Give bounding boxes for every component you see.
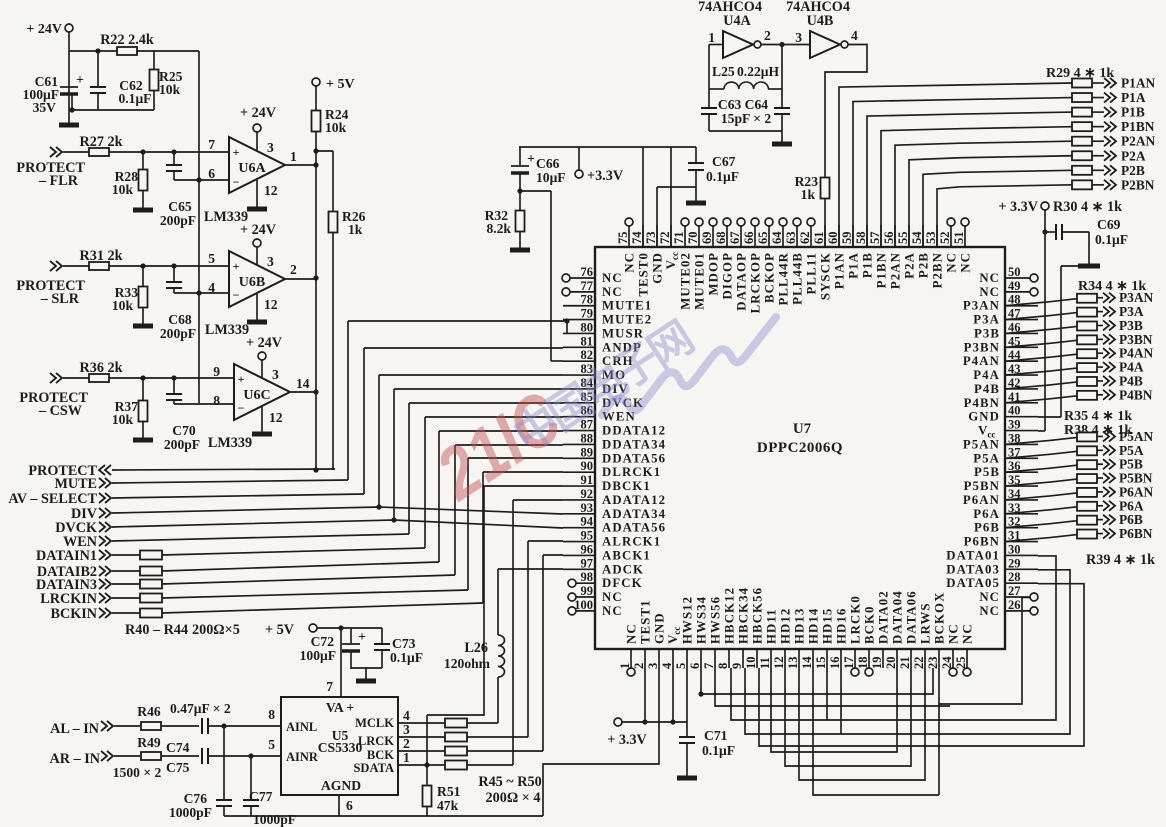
IC U7 DPPC2006Q outline — [595, 247, 1005, 649]
wire AV-SELECT row to pin 81 — [112, 494, 364, 498]
svg-text:HBCK12: HBCK12 — [723, 587, 737, 644]
svg-text:HD15: HD15 — [821, 608, 835, 644]
wire pin 37 to P5A — [1005, 451, 1077, 458]
pin 78 MUTE1 stub — [563, 305, 595, 307]
resistor R40 — [112, 554, 140, 556]
svg-text:HD12: HD12 — [779, 608, 793, 644]
svg-text:72: 72 — [658, 232, 672, 245]
wire pin 57 to P1BN — [881, 127, 1072, 247]
node P5B output — [1103, 459, 1109, 469]
svg-text:67: 67 — [728, 232, 742, 245]
svg-text:58: 58 — [854, 232, 868, 245]
pin 33 P6A stub — [1005, 513, 1038, 515]
svg-text:14: 14 — [800, 656, 814, 669]
wire R43 row staircase — [467, 458, 469, 590]
pin 100 NC (NC) — [568, 607, 576, 615]
pin 45 P3BN stub — [1005, 346, 1038, 348]
svg-text:C73: C73 — [392, 636, 416, 651]
svg-text:P2B: P2B — [917, 252, 931, 278]
svg-text:1: 1 — [403, 750, 410, 765]
svg-text:5: 5 — [208, 251, 215, 266]
svg-text:P4A: P4A — [1119, 360, 1144, 375]
IC U5 CS5330 — [281, 697, 398, 795]
svg-text:HWS56: HWS56 — [709, 596, 723, 644]
svg-text:−: − — [238, 401, 245, 415]
node P1BN output — [1104, 122, 1110, 132]
capacitor C69 — [1045, 231, 1056, 233]
svg-text:BCK: BCK — [367, 748, 394, 762]
svg-text:AR – IN: AR – IN — [50, 751, 101, 767]
svg-text:30: 30 — [1008, 542, 1021, 556]
svg-text:2: 2 — [764, 28, 771, 43]
svg-text:+: + — [233, 145, 240, 159]
pin 13 HD13 bottom stub — [798, 649, 800, 668]
svg-text:ADATA34: ADATA34 — [602, 507, 666, 521]
svg-text:P3B: P3B — [974, 326, 1000, 340]
wire DATA03 pin 29 loop to pin 9 — [745, 570, 1070, 734]
svg-text:R31 2k: R31 2k — [80, 248, 123, 264]
svg-text:0.22μH: 0.22μH — [737, 64, 779, 79]
svg-text:MUTE1: MUTE1 — [602, 299, 652, 313]
resistor R42 — [112, 583, 140, 585]
resistor R51 — [424, 762, 429, 767]
svg-text:4: 4 — [208, 280, 215, 295]
svg-text:DATA05: DATA05 — [946, 576, 1000, 590]
svg-text:+ 3.3V: + 3.3V — [607, 732, 647, 748]
pin 70 MUTE01 top stub — [698, 226, 700, 247]
svg-text:73: 73 — [644, 232, 658, 245]
svg-text:DDATA34: DDATA34 — [602, 437, 666, 451]
svg-text:19: 19 — [870, 657, 884, 670]
svg-text:97: 97 — [581, 556, 594, 570]
pin 27 NC (NC) — [1005, 596, 1030, 598]
pin 52 NC top stub — [950, 226, 952, 247]
capacitor C65 — [173, 152, 175, 165]
wire Vcc pin 4 — [672, 668, 674, 722]
wire U4A input left rail — [709, 44, 723, 46]
svg-text:DLRCK1: DLRCK1 — [602, 465, 661, 479]
pin 44 P4AN stub — [1005, 360, 1038, 362]
pin 5 HWS12 bottom stub — [686, 649, 688, 668]
pin 59 P1A top stub — [852, 225, 854, 247]
pin 6 HWS34 bottom stub — [700, 649, 702, 668]
pin 3 GND bottom stub — [658, 649, 660, 668]
svg-text:71: 71 — [672, 232, 686, 245]
node P5BN output — [1103, 473, 1109, 483]
node P6B output — [1103, 515, 1109, 525]
op-amp U6B — [229, 251, 285, 307]
input PROTECT-FLR — [50, 147, 56, 157]
pin 51 NC top stub — [964, 226, 966, 247]
svg-text:C72: C72 — [311, 634, 335, 649]
resistor R37 — [142, 378, 144, 400]
pin 65 BCKOP top stub — [768, 226, 770, 247]
svg-text:9: 9 — [730, 663, 744, 669]
svg-text:99: 99 — [581, 584, 594, 598]
svg-text:P1B: P1B — [861, 252, 875, 278]
svg-text:16: 16 — [828, 657, 842, 670]
wire U5 output row pin 4 — [398, 722, 445, 724]
wire pin 59 to P1A — [853, 98, 1072, 247]
wire pin 31 to P6BN — [1005, 535, 1077, 542]
wire pin 91 down to AGND area — [427, 486, 563, 715]
pin 17 LRCK0 bottom stub (open) — [854, 649, 856, 668]
ground below C61 — [59, 123, 79, 128]
svg-text:P2A: P2A — [1121, 148, 1146, 163]
svg-text:88: 88 — [581, 431, 594, 445]
svg-text:P4B: P4B — [974, 382, 1000, 396]
svg-text:+: + — [233, 259, 240, 273]
svg-text:DDATA12: DDATA12 — [602, 424, 666, 438]
wire LRCK row to pin 95 — [527, 541, 529, 737]
svg-text:57: 57 — [868, 232, 882, 245]
svg-text:100μF: 100μF — [300, 648, 336, 663]
svg-text:3: 3 — [646, 663, 660, 669]
svg-text:0.1μF: 0.1μF — [706, 169, 739, 184]
wire +3.3V down to Vcc pin 39 — [1044, 210, 1046, 431]
pin 64 PLL44R top stub — [782, 226, 784, 247]
svg-text:P1AN: P1AN — [833, 252, 847, 289]
svg-text:NC: NC — [602, 285, 623, 299]
svg-text:MUTE01: MUTE01 — [693, 252, 707, 310]
svg-text:AINL: AINL — [286, 720, 317, 734]
wire to U6A +in — [109, 151, 229, 153]
ground U6A — [247, 207, 267, 212]
svg-text:+ 5V: + 5V — [326, 77, 355, 92]
+3.3V terminal above chip — [575, 170, 583, 178]
svg-text:P2AN: P2AN — [889, 252, 903, 289]
pin 8 HBCK12 bottom stub — [728, 649, 730, 668]
svg-text:59: 59 — [840, 232, 854, 245]
svg-text:40: 40 — [1008, 404, 1021, 418]
svg-text:DATA04: DATA04 — [891, 590, 905, 644]
pin 29 DATA03 stub — [1005, 568, 1038, 570]
pin 79 MUTE2 stub — [563, 319, 595, 321]
resistor R29.4 — [1072, 122, 1092, 131]
svg-text:P4BN: P4BN — [1119, 387, 1153, 402]
svg-text:70: 70 — [686, 232, 700, 245]
resistor R38.6 — [1077, 502, 1097, 511]
svg-text:HD13: HD13 — [793, 608, 807, 644]
svg-text:10k: 10k — [159, 82, 181, 97]
svg-text:P3A: P3A — [973, 313, 1000, 327]
resistor R43 — [112, 597, 140, 599]
pin 46 P3B stub — [1005, 332, 1038, 334]
svg-text:56: 56 — [882, 232, 896, 245]
input PROTECT-SLR — [50, 261, 56, 271]
pin 86 WEN stub — [563, 416, 595, 418]
svg-text:90: 90 — [581, 459, 594, 473]
svg-text:100: 100 — [574, 598, 593, 612]
wire U5 output row pin 1 — [398, 764, 445, 766]
ground below R37 — [133, 438, 153, 443]
svg-text:47k: 47k — [437, 798, 459, 813]
svg-text:65: 65 — [756, 232, 770, 245]
pin 19 DATA02 bottom stub — [882, 649, 884, 668]
svg-text:NC: NC — [961, 623, 975, 644]
resistor R38.1 — [1077, 432, 1097, 441]
svg-text:PLL11: PLL11 — [805, 252, 819, 294]
wire Vcc pin 72 to rail — [670, 147, 672, 247]
pin 34 P6AN stub — [1005, 499, 1038, 501]
svg-text:LRCKOP: LRCKOP — [749, 252, 763, 313]
svg-text:P6A: P6A — [1119, 498, 1144, 513]
svg-text:P2AN: P2AN — [1121, 134, 1156, 149]
svg-text:LRCK0: LRCK0 — [849, 595, 863, 644]
svg-text:P1A: P1A — [1121, 90, 1146, 105]
svg-text:– SLR: – SLR — [40, 291, 80, 307]
svg-text:79: 79 — [581, 307, 594, 321]
resistor R41 — [112, 570, 140, 572]
svg-text:NC: NC — [602, 271, 623, 285]
node P6BN output — [1103, 529, 1109, 539]
svg-text:ADCK: ADCK — [602, 562, 644, 576]
svg-text:P6AN: P6AN — [963, 493, 1000, 507]
pin 57 P1BN top stub — [880, 225, 882, 247]
svg-text:NC: NC — [625, 623, 639, 644]
svg-text:+ 24V: + 24V — [240, 222, 277, 238]
svg-text:R45 ~ R50: R45 ~ R50 — [478, 774, 541, 790]
wire oscillator bottom rail — [709, 130, 782, 132]
resistor R29.5 — [1072, 137, 1092, 146]
svg-text:P5B: P5B — [974, 465, 1000, 479]
svg-text:BCK0: BCK0 — [863, 605, 877, 644]
wire AGND rail — [224, 815, 543, 817]
wire branch pin 15 — [826, 668, 828, 720]
node P4A output — [1103, 362, 1109, 372]
pin 11 HD11 bottom stub — [770, 649, 772, 668]
resistor R29.1 — [1072, 79, 1092, 88]
wire pin 36 to P5B — [1005, 465, 1077, 472]
pin 68 DIGOP top stub — [726, 226, 728, 247]
svg-text:15: 15 — [814, 657, 828, 670]
svg-text:52: 52 — [938, 232, 952, 245]
svg-text:P1BN: P1BN — [875, 252, 889, 288]
svg-text:64: 64 — [770, 231, 784, 244]
svg-text:8: 8 — [213, 393, 220, 408]
wire +24V down — [68, 32, 70, 125]
wire pin 32 to P6B — [1005, 521, 1077, 528]
pin 42 P4B stub — [1005, 388, 1038, 390]
pin 39 Vcc stub — [1005, 430, 1038, 432]
resistor R34.2 — [1077, 308, 1097, 317]
resistor R34.4 — [1077, 335, 1097, 344]
pin 22 LRWS bottom stub — [924, 649, 926, 668]
svg-text:NC: NC — [602, 590, 623, 604]
pin 61 SYSCK top stub — [824, 225, 826, 247]
resistor R34.5 — [1077, 349, 1097, 358]
pin 84 DIV stub — [563, 388, 595, 390]
svg-text:R40 – R44: R40 – R44 — [125, 622, 188, 638]
svg-text:AV – SELECT: AV – SELECT — [8, 491, 97, 507]
wire pin 97 stub extension — [498, 568, 563, 570]
svg-text:54: 54 — [910, 231, 924, 244]
svg-text:3: 3 — [795, 30, 802, 45]
svg-text:200Ω × 4: 200Ω × 4 — [486, 790, 541, 806]
svg-text:BCKOX: BCKOX — [933, 592, 947, 644]
svg-text:2: 2 — [632, 663, 646, 669]
pin 60 P1AN top stub — [838, 225, 840, 247]
ground U6B — [247, 320, 267, 325]
node P2AN output — [1104, 136, 1110, 146]
resistor R33 — [142, 266, 144, 286]
svg-text:DFCK: DFCK — [602, 576, 643, 590]
node P1B output — [1104, 107, 1110, 117]
svg-text:6: 6 — [346, 798, 353, 813]
ground below C72 C73 — [356, 679, 376, 684]
wire R26 to PROTECT row — [332, 233, 334, 470]
svg-text:5: 5 — [268, 737, 275, 752]
svg-text:U6C: U6C — [243, 388, 270, 403]
pin 21 DATA06 bottom stub — [910, 649, 912, 668]
watermark swoosh blue — [602, 317, 776, 415]
resistor R49 — [141, 752, 161, 760]
svg-text:ALRCK1: ALRCK1 — [602, 535, 661, 549]
pin 55 P2A top stub — [908, 225, 910, 247]
pin 16 HD16 bottom stub — [840, 649, 842, 668]
svg-text:14: 14 — [296, 376, 310, 391]
wire DATA05 pin 28 loop to pin 10 — [759, 584, 1084, 746]
svg-text:TEST0: TEST0 — [637, 252, 651, 297]
svg-text:DATAOP: DATAOP — [735, 252, 749, 311]
svg-text:MDOP: MDOP — [707, 252, 721, 296]
ground below R33 — [133, 324, 153, 329]
svg-text:TEST1: TEST1 — [639, 599, 653, 644]
wire +3.3V rail above chip — [519, 146, 696, 148]
pin 24 NC bottom stub (open) — [952, 649, 954, 668]
node P5AN output — [1103, 431, 1109, 441]
svg-text:SDATA: SDATA — [353, 761, 394, 775]
svg-text:80: 80 — [581, 320, 594, 334]
wire U6A -in row — [174, 179, 229, 181]
wire R22 right drop to reference rail — [198, 51, 200, 404]
pin 12 HD12 bottom stub — [784, 649, 786, 668]
svg-text:P6B: P6B — [1119, 512, 1143, 527]
svg-text:3: 3 — [267, 140, 274, 155]
svg-text:P5AN: P5AN — [963, 437, 1000, 451]
svg-text:DIGOP: DIGOP — [721, 252, 735, 299]
svg-text:HD14: HD14 — [807, 608, 821, 644]
svg-text:1: 1 — [708, 30, 715, 45]
wire GND pin 3 to AGND rail — [543, 668, 659, 816]
pin 2 TEST1 bottom stub — [644, 649, 646, 668]
svg-text:DDATA56: DDATA56 — [602, 451, 666, 465]
svg-text:DATA01: DATA01 — [946, 548, 1000, 562]
svg-text:−: − — [233, 175, 240, 189]
svg-text:L25: L25 — [712, 64, 735, 79]
svg-text:LRWS: LRWS — [919, 602, 933, 644]
svg-text:C63 C64: C63 C64 — [718, 97, 768, 112]
svg-text:+: + — [358, 629, 366, 644]
svg-text:P4B: P4B — [1119, 373, 1143, 388]
resistor R34.3 — [1077, 321, 1097, 330]
op-amp U6A — [229, 137, 285, 193]
pin 54 P2B top stub — [922, 225, 924, 247]
resistor R45-R50 row 3 — [445, 733, 467, 742]
capacitor C68 — [173, 266, 175, 282]
pin 15 HD15 bottom stub — [826, 649, 828, 668]
svg-text:NC: NC — [979, 271, 1000, 285]
wire TEST1 pin 2 — [644, 668, 646, 722]
svg-text:P4AN: P4AN — [963, 354, 1000, 368]
svg-text:MCLK: MCLK — [355, 716, 394, 730]
wire branch to R26 — [316, 150, 333, 152]
pin 75 NC top stub — [628, 226, 630, 247]
pin 49 NC (NC) — [1005, 291, 1030, 293]
wire pins 79/80 MUTE bracket — [566, 320, 568, 334]
ground U6C — [252, 432, 272, 437]
svg-text:HWS34: HWS34 — [695, 596, 709, 644]
wire bottom of filter — [72, 109, 154, 111]
capacitor C70 — [173, 378, 175, 394]
svg-text:R49: R49 — [137, 735, 161, 750]
wire U4A out to U4B in — [761, 44, 810, 46]
wire TEST0 pin 74 to rail — [642, 147, 644, 247]
wire WEN row to pin 85 — [112, 534, 409, 541]
svg-text:P4AN: P4AN — [1119, 346, 1154, 361]
svg-text:4: 4 — [403, 708, 410, 723]
svg-text:P5A: P5A — [973, 451, 1000, 465]
pin 69 MDOP top stub — [712, 226, 714, 247]
wire pin 43 to P4A — [1005, 368, 1077, 375]
ground below R28 — [133, 208, 153, 213]
svg-text:11: 11 — [758, 657, 772, 669]
svg-text:R46: R46 — [137, 704, 161, 719]
svg-text:U6A: U6A — [238, 161, 266, 176]
capacitor C71 — [686, 668, 688, 737]
wire MCLK row to pin 97 via L26 — [497, 569, 499, 635]
resistor R22 — [117, 47, 137, 55]
svg-text:3: 3 — [267, 254, 274, 269]
resistor R46 — [141, 722, 161, 730]
resistor R27 — [89, 148, 109, 156]
node P4AN output — [1103, 348, 1109, 358]
svg-text:C74: C74 — [166, 740, 190, 755]
svg-text:PLL44B: PLL44B — [791, 252, 805, 305]
svg-text:DATA03: DATA03 — [946, 562, 1000, 576]
wire AGND down — [338, 795, 340, 816]
svg-text:4: 4 — [851, 28, 858, 43]
svg-text:+: + — [76, 72, 84, 87]
node P2B output — [1104, 165, 1110, 175]
svg-text:R39 4 ∗ 1k: R39 4 ∗ 1k — [1086, 552, 1155, 568]
op-amp U6C — [234, 364, 290, 420]
input PROTECT-CSW — [50, 373, 56, 383]
svg-text:C68: C68 — [168, 312, 192, 327]
svg-text:BCKIN: BCKIN — [50, 606, 97, 622]
svg-text:MUTE02: MUTE02 — [679, 252, 693, 310]
svg-text:28: 28 — [1008, 570, 1021, 584]
svg-text:12: 12 — [264, 297, 278, 312]
resistor R29.7 — [1072, 166, 1092, 175]
svg-text:P3A: P3A — [1119, 304, 1144, 319]
resistor R29.2 — [1072, 93, 1092, 102]
svg-text:6: 6 — [208, 166, 215, 181]
svg-text:98: 98 — [581, 570, 594, 584]
wire comparator output chain — [315, 132, 317, 470]
capacitor C76 — [221, 723, 226, 728]
svg-text:C75: C75 — [166, 760, 190, 775]
svg-text:15pF × 2: 15pF × 2 — [721, 111, 771, 126]
svg-text:R35 4 ∗ 1k: R35 4 ∗ 1k — [1064, 409, 1132, 424]
resistor R45-R50 row 1 — [445, 761, 467, 770]
svg-text:0.1μF: 0.1μF — [118, 91, 151, 106]
svg-text:NC: NC — [959, 252, 973, 273]
svg-text:C67: C67 — [712, 154, 736, 169]
resistor R38.8 — [1077, 530, 1097, 539]
resistor R38.7 — [1077, 516, 1097, 525]
svg-text:91: 91 — [581, 473, 594, 487]
